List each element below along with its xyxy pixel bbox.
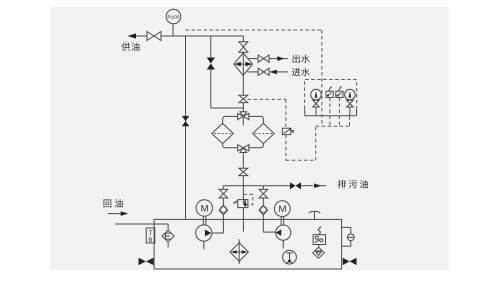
pressure switch B2 — [336, 91, 343, 97]
switch B2 dot — [337, 95, 339, 97]
dashed filter mesh lines — [214, 133, 272, 135]
arrow cooler internal left — [234, 62, 240, 67]
svg-text:B: B — [148, 238, 152, 244]
valve below G1 — [313, 100, 320, 107]
three-way valve top of duplex filter — [238, 112, 249, 120]
three-way valve bottom of duplex filter — [238, 145, 249, 153]
drain diamond in tank — [313, 247, 325, 258]
relief valve spring — [234, 201, 238, 204]
arrow drain oil — [314, 183, 322, 188]
vent breather on tank top — [314, 212, 316, 220]
valve V1 supply shut-off — [147, 32, 161, 41]
valve V7 pump1 discharge — [219, 189, 228, 198]
valve V4 water in — [258, 68, 269, 75]
oil tank — [154, 219, 342, 269]
gauge G1 needle — [315, 91, 318, 98]
filter F2 right diamond — [253, 123, 275, 143]
check valve black (cooler bypass) — [207, 58, 215, 70]
thermometer bulb — [288, 260, 291, 263]
valve below G2 — [347, 100, 354, 107]
wire filter bottom left — [223, 144, 238, 148]
arrow cooler internal right — [246, 62, 252, 67]
wire to inlet branch — [248, 71, 259, 73]
wire pump1 branch — [222, 186, 224, 190]
svg-text:T: T — [149, 231, 153, 237]
motor M2 — [274, 201, 290, 217]
level gauge LG — [342, 226, 351, 228]
valve V3 water out — [258, 55, 269, 62]
valve V5 cooler outlet — [239, 95, 248, 102]
return filter E diamond — [162, 230, 174, 242]
valve black drain 排污油 — [290, 182, 301, 189]
label 排污油 — [338, 180, 368, 188]
dashed instrument panel box — [305, 80, 357, 109]
label 回油 — [104, 199, 123, 207]
suction strainer diamond — [230, 243, 248, 262]
wire pump2 branch — [262, 186, 264, 190]
arrow water out — [277, 56, 285, 61]
arrow strainer internal left — [231, 250, 237, 254]
check valve CK1 ball — [219, 206, 227, 215]
return line 回油 — [108, 213, 121, 215]
pump P2 — [276, 225, 291, 240]
check valve CK2 ball — [259, 206, 267, 215]
check valve black on riser A — [182, 116, 190, 126]
instrument panel gauge G1 — [311, 89, 322, 100]
wire riser A x=185.5 — [185, 36, 187, 219]
DP indicator box — [282, 128, 290, 134]
label 进水 — [292, 68, 310, 76]
wire gauge stem — [172, 24, 174, 36]
valve black tank drain right — [343, 258, 357, 265]
pump P1 internal triangle — [205, 230, 211, 237]
dashed DP sense from filter inlet — [248, 98, 286, 100]
wire pump discharge header y=185.7 — [223, 185, 290, 187]
pump P1 — [196, 225, 212, 241]
valve black tank drain left — [139, 258, 154, 265]
filter F1 left diamond — [212, 123, 234, 143]
svg-text:M: M — [278, 204, 286, 215]
arrow return oil — [121, 211, 129, 216]
thermometer box TB — [146, 228, 155, 243]
dashed relief valve pilot box — [243, 194, 252, 204]
valve V6 pump header — [239, 168, 248, 175]
pressure gauge PI (Pt100) — [166, 9, 181, 24]
instrument panel gauge G2 — [345, 89, 356, 100]
arrow water in — [269, 70, 277, 75]
level switch box — [313, 235, 325, 245]
svg-text:M: M — [201, 204, 209, 215]
arrow strainer internal right — [242, 250, 248, 254]
wire cooler riser — [242, 36, 244, 42]
pressure switch B1 — [326, 91, 333, 97]
svg-text:Pt100: Pt100 — [167, 14, 179, 19]
DP arrowhead — [289, 128, 291, 130]
wire bypass riser x=210.8 — [210, 36, 212, 58]
arrow supply out (left) — [128, 33, 137, 38]
dashed instrument signal top run — [186, 29, 322, 31]
wire filter top left — [223, 116, 238, 123]
thermometer gauge T — [283, 250, 297, 264]
gauge G2 needle — [349, 91, 352, 98]
level switch arrowhead — [319, 226, 321, 228]
dashed riser x=321.9 — [321, 30, 323, 126]
wire to outlet branch — [248, 58, 259, 60]
wire supply header y=36 — [136, 35, 147, 37]
heat exchanger cooler diamond — [234, 53, 253, 75]
relief valve RV body — [238, 200, 248, 208]
valve V8 pump2 discharge — [259, 189, 268, 198]
motor M1 — [196, 200, 212, 216]
dashed switch signal lines — [329, 98, 331, 127]
label 出水 — [292, 54, 309, 62]
wire cooler outlet — [242, 75, 244, 95]
wire filter top right — [249, 116, 264, 123]
pump P2 internal triangle — [276, 229, 282, 235]
switch B1 dot — [327, 95, 329, 97]
relief valve internal arrow — [244, 200, 246, 204]
valve V2 cooler inlet — [239, 42, 248, 52]
instrument manifold pipe — [305, 115, 356, 117]
label 供油 — [121, 42, 139, 50]
wire filter bottom right — [249, 144, 264, 148]
